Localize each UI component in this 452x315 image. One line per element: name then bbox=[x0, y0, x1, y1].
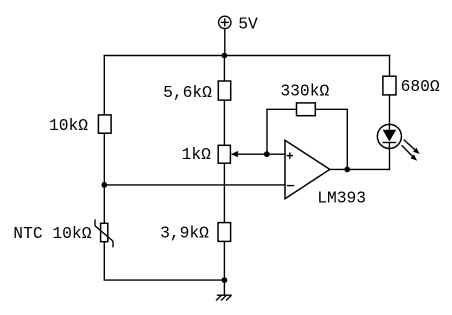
junction top rail bbox=[222, 53, 228, 59]
svg-text:3,9kΩ: 3,9kΩ bbox=[160, 224, 209, 243]
potentiometer 1kΩ bbox=[218, 145, 238, 163]
svg-text:LM393: LM393 bbox=[317, 188, 366, 207]
wire feedback top right bbox=[315, 108, 348, 110]
resistor 3,9kΩ bbox=[218, 223, 231, 242]
svg-text:330kΩ: 330kΩ bbox=[280, 82, 329, 101]
wire left column middle bbox=[103, 133, 105, 223]
svg-text:10kΩ: 10kΩ bbox=[49, 116, 88, 135]
junction ground node bbox=[222, 277, 228, 283]
power symbol 5V bbox=[219, 16, 231, 28]
LED light arrow upper bbox=[404, 140, 420, 154]
LED light arrow lower bbox=[402, 145, 418, 161]
wire center column second bbox=[223, 100, 225, 145]
wire center column top bbox=[223, 56, 225, 82]
wire feedback right leg bbox=[346, 109, 348, 169]
wire center column bottom bbox=[223, 241, 225, 280]
junction minus node bbox=[101, 182, 107, 188]
svg-text:1kΩ: 1kΩ bbox=[182, 145, 212, 164]
wire left column lower bbox=[103, 242, 105, 280]
LED D1 bbox=[377, 124, 401, 148]
svg-text:680Ω: 680Ω bbox=[401, 77, 440, 96]
wire feedback left leg bbox=[266, 109, 268, 154]
wire wiper to plus input bbox=[232, 153, 286, 155]
op-amp LM393 bbox=[285, 140, 330, 199]
ground bbox=[216, 295, 232, 300]
wire center column third bbox=[223, 163, 225, 222]
thermistor NTC 10kΩ bbox=[95, 219, 113, 247]
wire left column upper bbox=[103, 55, 105, 115]
resistor 5,6kΩ bbox=[218, 81, 230, 100]
wire minus input bbox=[104, 184, 285, 186]
svg-text:5V: 5V bbox=[238, 14, 258, 33]
wire 680 to LED bbox=[389, 95, 391, 125]
wire bottom rail bbox=[104, 279, 225, 281]
resistor 680Ω bbox=[383, 76, 396, 95]
wire top rail bbox=[104, 55, 391, 57]
junction wiper feedback bbox=[264, 151, 270, 157]
resistor 330kΩ bbox=[297, 103, 316, 116]
wire output bbox=[330, 168, 390, 170]
wire feedback top left bbox=[266, 108, 296, 110]
resistor 10kΩ bbox=[98, 115, 111, 133]
svg-text:5,6kΩ: 5,6kΩ bbox=[163, 83, 212, 102]
wire LED to output bbox=[389, 148, 391, 170]
junction output bbox=[344, 167, 350, 173]
wire ground stem bbox=[223, 280, 225, 295]
wire power stem bbox=[224, 29, 226, 56]
svg-text:NTC 10kΩ: NTC 10kΩ bbox=[13, 224, 91, 243]
wire right column top bbox=[389, 55, 391, 76]
